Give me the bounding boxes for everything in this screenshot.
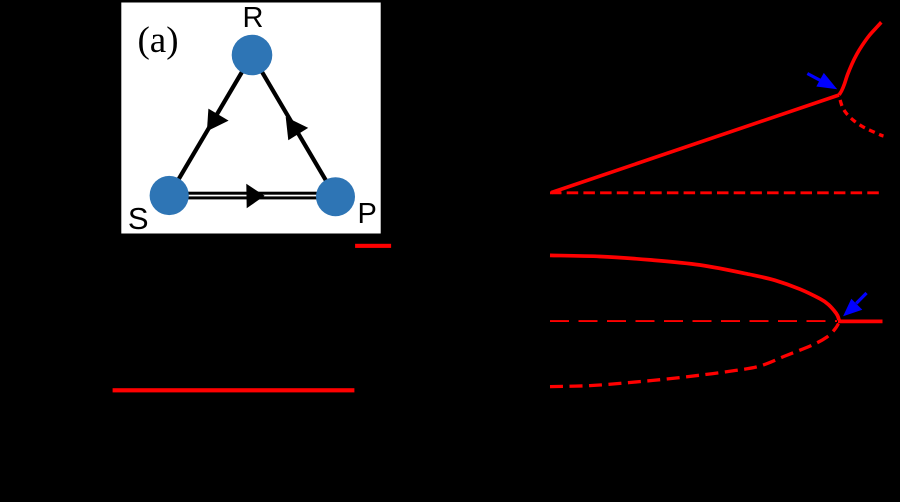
svg-text:(a): (a) — [137, 20, 178, 61]
svg-text:P: P — [358, 198, 377, 230]
svg-text:R: R — [243, 2, 264, 34]
svg-text:S: S — [128, 201, 149, 236]
